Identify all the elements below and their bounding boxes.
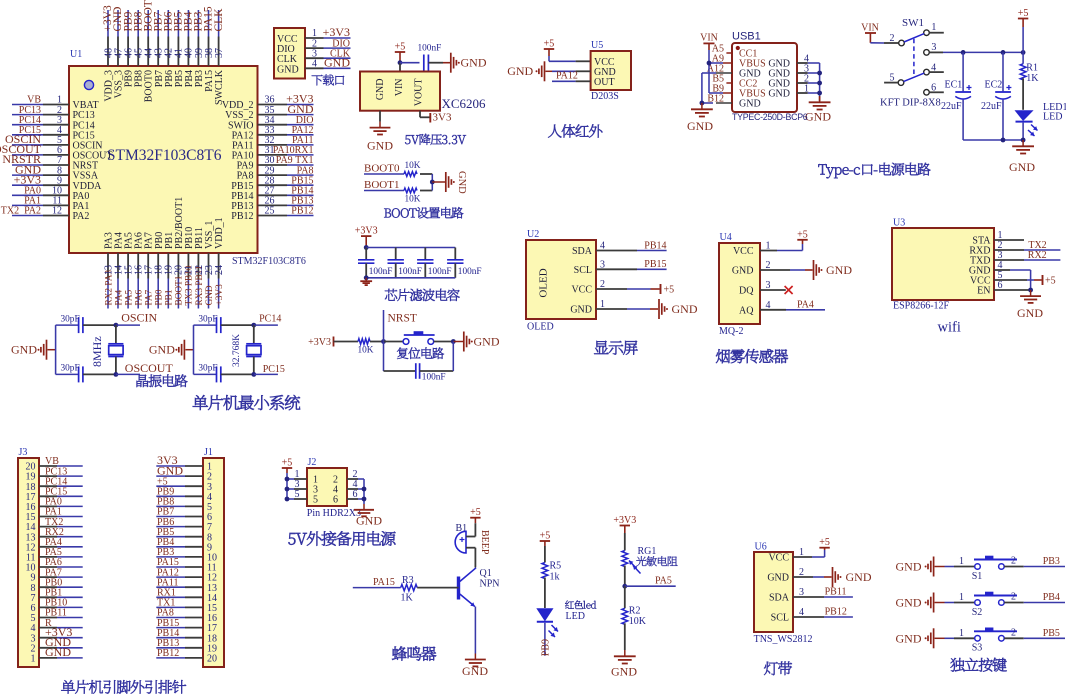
svg-text:S2: S2 <box>972 607 983 618</box>
svg-text:LED: LED <box>566 611 585 622</box>
wire node to PA5 <box>625 585 676 587</box>
pin name CLK <box>277 54 298 65</box>
node net label DIO <box>296 115 314 126</box>
node net label PB11 <box>825 586 847 597</box>
wire USB1 right pin 4 <box>797 62 820 64</box>
caption 5V waijie beiyong dianyuan <box>288 531 395 546</box>
pin number 10 <box>26 563 36 574</box>
svg-text:GND: GND <box>462 664 488 678</box>
pin number 4 <box>31 623 36 634</box>
wire pin3 to power rail <box>929 51 1023 53</box>
svg-text:100nF: 100nF <box>418 44 442 54</box>
pin name VDD_3 <box>104 70 115 102</box>
wire U1 pin 8 (VSSA) left <box>12 174 69 176</box>
node net label PA4 <box>114 289 124 305</box>
wire emitter to gnd <box>474 607 476 654</box>
wire J1 pin 14 <box>156 596 203 598</box>
pin number 12 <box>207 573 217 584</box>
pin number 48 <box>103 48 114 58</box>
pin number 29 <box>265 165 275 176</box>
pin number 2 <box>766 260 771 271</box>
pin number 44 <box>144 48 155 58</box>
pin number 40 <box>184 48 195 58</box>
svg-text:TYPEC-250D-BCP6: TYPEC-250D-BCP6 <box>732 112 808 122</box>
photoresistor RG1 <box>622 546 657 574</box>
pin number 1 <box>31 654 36 665</box>
svg-text:22uF: 22uF <box>981 101 1002 112</box>
pin name 3 <box>313 485 318 496</box>
svg-text:NRST: NRST <box>388 313 417 325</box>
svg-text:GND: GND <box>672 302 698 316</box>
wire gnd to left vert <box>185 349 193 351</box>
pin number 16 <box>134 265 145 275</box>
pin name NRST <box>73 161 99 172</box>
pushbutton S1 <box>972 556 1017 582</box>
pin number 3 <box>207 482 212 493</box>
junction <box>114 372 119 377</box>
pin number 17 <box>26 492 36 503</box>
pin number 7 <box>31 593 36 604</box>
svg-text:30pF: 30pF <box>61 364 80 374</box>
svg-text:STM32F103C8T6: STM32F103C8T6 <box>232 256 306 267</box>
wire download port pin 2 <box>305 47 351 49</box>
wire +5 to R5 <box>544 546 546 563</box>
pin name PC13 <box>73 110 95 121</box>
pin number 5 <box>31 613 36 624</box>
pin name GND <box>768 59 790 70</box>
caption guangmin dianzu <box>636 556 677 566</box>
wire U1 pin 36 (VDD_2) right <box>258 104 314 106</box>
svg-text:+3V3: +3V3 <box>613 515 636 526</box>
junction <box>961 50 966 55</box>
wire top mid <box>221 324 254 326</box>
svg-text:J3: J3 <box>19 447 28 458</box>
ground (typec power) <box>1009 140 1035 174</box>
pin name SWIO <box>228 120 254 131</box>
svg-text:R3: R3 <box>402 575 414 586</box>
svg-text:EN: EN <box>977 286 990 297</box>
svg-text:GND: GND <box>896 631 922 645</box>
svg-text:4: 4 <box>312 59 317 70</box>
svg-text:GND: GND <box>826 263 852 277</box>
power +5 port (OLED) <box>661 284 675 295</box>
node net label PB14 <box>291 186 313 197</box>
node net label PB8 <box>157 497 174 508</box>
pin number 30 <box>265 155 275 166</box>
pin number 18 <box>207 633 217 644</box>
svg-text:100nF: 100nF <box>458 267 482 277</box>
svg-text:D203S: D203S <box>591 91 619 102</box>
wire USB1 pin A12 <box>716 72 732 74</box>
wire node to R2 <box>624 586 626 608</box>
pin name TXD <box>970 256 991 267</box>
pin name 6 <box>333 495 338 506</box>
svg-text:+5: +5 <box>540 531 551 542</box>
wire xtal top <box>115 325 117 344</box>
wire EC2 bottom <box>1002 100 1004 140</box>
power +3V3 port (reset) <box>308 337 333 348</box>
wire VCC to +5 <box>994 279 1042 281</box>
pin name RXD <box>969 246 990 257</box>
pin number 18 <box>26 482 36 493</box>
wire filter bottom rail <box>366 277 455 279</box>
pin number 3 <box>766 280 771 291</box>
pin number 6 outside <box>353 489 358 500</box>
junction <box>398 60 403 65</box>
pin name PB3 <box>194 70 205 87</box>
pin number 3 outside <box>295 479 300 490</box>
wire J3 pin 11 <box>39 556 83 558</box>
svg-text:25: 25 <box>265 206 275 217</box>
node net label TX3 PB10 <box>185 265 195 305</box>
pin name PB6 <box>164 70 175 87</box>
svg-text:GND: GND <box>324 56 350 70</box>
svg-text:Q1: Q1 <box>480 568 492 579</box>
pin name VBAT <box>73 100 99 111</box>
wire J1 pin 1 <box>156 465 203 467</box>
pin number 1 <box>600 299 605 310</box>
node net label TX1 <box>157 598 175 609</box>
no-connect X on DQ <box>785 286 793 294</box>
pin number 10 <box>207 553 217 564</box>
node net label PA8 <box>297 165 314 176</box>
pin name GND <box>277 64 299 75</box>
junction <box>364 245 369 250</box>
svg-text:12: 12 <box>52 206 62 217</box>
switch SW1 pin 1 terminal <box>924 22 937 36</box>
node net label PB12 <box>157 648 179 659</box>
node net label BOOT0 <box>142 0 154 32</box>
pin number 13 <box>103 265 114 275</box>
ground (BOOT) <box>446 171 467 194</box>
pin number 1 <box>959 592 964 603</box>
svg-text:S1: S1 <box>972 571 983 582</box>
caption xiazaikou <box>312 75 344 86</box>
pin number 1 <box>207 462 212 473</box>
junction <box>1001 138 1006 143</box>
wire J1 pin 20 <box>156 657 203 659</box>
wire top mid <box>83 324 116 326</box>
caption wifi <box>938 320 961 336</box>
svg-text:PC14: PC14 <box>259 313 281 324</box>
pin name SDA <box>572 246 593 257</box>
capacitor 30pF (top) <box>198 314 220 333</box>
wire EC1 bottom <box>962 100 964 140</box>
node net label PA0 <box>24 186 41 197</box>
svg-text:LED: LED <box>1043 112 1062 123</box>
pin name PB11 <box>194 227 205 249</box>
pin number 5 <box>998 270 1003 281</box>
pin number 1 <box>766 241 771 252</box>
pin number 20 <box>174 265 185 275</box>
svg-text:GND: GND <box>1017 306 1043 320</box>
wire USB1 pin B9 <box>723 92 732 94</box>
pin name 2 <box>333 475 338 486</box>
node net label VB <box>45 456 59 467</box>
pin name VCC <box>733 246 754 257</box>
svg-text:ESP8266-12F: ESP8266-12F <box>893 301 950 312</box>
svg-text:SCL: SCL <box>574 265 592 276</box>
caption fuwei dianlu <box>397 347 444 359</box>
svg-text:1: 1 <box>959 556 964 567</box>
ground (filter) <box>360 278 372 285</box>
pushbutton (reset) <box>403 331 435 344</box>
pin number 46 <box>123 48 134 58</box>
caption xinpian lvbo dianrong <box>385 289 460 301</box>
svg-text:PA4: PA4 <box>797 299 814 310</box>
node net label PA1 <box>24 196 41 207</box>
wire U1 pin 32 (PA11) right <box>258 144 314 146</box>
svg-text:R2: R2 <box>629 606 641 617</box>
node net label PB14 <box>644 240 666 251</box>
node net label PA15 <box>203 6 215 31</box>
pin number 23 <box>204 265 215 275</box>
capacitor EC2 22uF <box>981 79 1011 112</box>
wire U1 pin 25 (PB12) right <box>258 215 314 217</box>
pin name PB2/BOOT1 <box>174 197 185 249</box>
svg-text:U6: U6 <box>755 542 767 553</box>
node net label RX2 <box>1028 250 1047 261</box>
wire S2 to PB4 <box>1004 602 1065 604</box>
node net label PB8 <box>132 11 144 31</box>
connector J2 body <box>307 457 361 519</box>
crystal 32.768K <box>232 334 261 367</box>
pin name VCC <box>277 34 298 45</box>
ground (crystal) <box>149 340 185 360</box>
wire U1 pin 44 (BOOT0) top <box>147 10 149 66</box>
node net label RX1 <box>157 588 176 599</box>
wire top right <box>254 324 278 326</box>
svg-text:NPN: NPN <box>480 579 500 590</box>
pin name VCC <box>970 276 991 287</box>
power +3V3 (filter) <box>355 226 378 248</box>
junction <box>362 497 367 502</box>
svg-text:GND: GND <box>1009 160 1035 174</box>
pin number 11 <box>207 563 217 574</box>
resistor R3 1K <box>401 575 418 604</box>
wire USB1 pin A5 <box>726 52 732 54</box>
junction <box>817 91 822 96</box>
capacitor 100nF (regulator input) <box>418 44 442 71</box>
pin number 14 <box>207 593 217 604</box>
pin name DQ <box>739 286 754 297</box>
svg-text:GND: GND <box>288 102 314 116</box>
wire SCL to PB15 <box>596 268 667 270</box>
node net label NRSTR <box>2 152 41 166</box>
svg-text:1: 1 <box>931 22 936 33</box>
pin number 47 <box>113 48 124 58</box>
junction <box>451 339 456 344</box>
wire +5 to VCC <box>549 56 591 61</box>
node net label VB <box>27 95 41 106</box>
pin number 3 <box>31 633 36 644</box>
svg-text:SW1: SW1 <box>902 17 924 29</box>
pin number 3 <box>799 587 804 598</box>
power +5 (red led) <box>540 531 551 547</box>
node net label PB4 <box>183 11 195 31</box>
wire cap3 top stub <box>424 248 426 260</box>
wire +5 node to C <box>400 62 420 64</box>
wire node2 to gnd <box>453 341 463 343</box>
wire U1 pin 6 (OSCOUT) left <box>12 154 69 156</box>
svg-text:GND: GND <box>768 89 790 100</box>
pin name GND <box>570 305 592 316</box>
svg-text:1: 1 <box>959 628 964 639</box>
svg-text:30pF: 30pF <box>198 314 217 324</box>
wire J3 pin 13 <box>39 536 83 538</box>
wire J3 pin 15 <box>39 516 83 518</box>
svg-text:6: 6 <box>353 489 358 500</box>
junction <box>1028 288 1033 293</box>
wire U1 pin 17 (PA7) bottom <box>147 253 149 309</box>
svg-text:OSCIN: OSCIN <box>121 310 157 324</box>
pin name DIO <box>277 44 295 55</box>
svg-text:GND: GND <box>611 665 637 679</box>
node net label PC13 <box>19 105 41 116</box>
ground (USB left) <box>687 103 713 133</box>
node net label B5 <box>712 74 724 85</box>
pin name VDD_2 <box>222 100 254 111</box>
pin number 14 <box>26 522 36 533</box>
pin number 1 <box>799 547 804 558</box>
pin number 2 <box>31 643 36 654</box>
wire J3 pin 10 <box>39 566 83 568</box>
wire R2 to gnd <box>624 623 626 650</box>
pin name PB7 <box>154 70 165 87</box>
power +5 (J2) <box>282 458 293 474</box>
capacitor 100nF (filter 2) <box>388 260 422 277</box>
svg-text:2: 2 <box>1011 592 1016 603</box>
node net label PB4 <box>1043 592 1060 603</box>
svg-text:PA4: PA4 <box>114 289 124 305</box>
pin name PA2 <box>73 211 90 222</box>
pin number 10 <box>52 186 62 197</box>
wire J2 pin 2 <box>347 478 364 480</box>
caption hongse led <box>565 600 596 609</box>
wire cap1 top stub <box>365 248 367 260</box>
pin name 4 <box>333 485 338 496</box>
svg-text:1: 1 <box>959 592 964 603</box>
junction <box>707 61 712 66</box>
wire cap branch right <box>420 342 454 372</box>
pin number 16 <box>26 502 36 513</box>
svg-text:U3: U3 <box>893 218 905 229</box>
wire VOUT to 3V3 <box>420 111 430 118</box>
wire C to GND <box>428 62 450 64</box>
wire node to button <box>384 341 404 343</box>
pin number 12 <box>26 542 36 553</box>
capacitor 100nF (filter 3) <box>417 260 451 277</box>
node net label GND <box>157 463 183 477</box>
wire J1 pin 5 <box>156 505 203 507</box>
wire VIN to pin2 <box>870 42 898 44</box>
wire J3 pin 1 <box>39 657 83 659</box>
wire USB1 right pin 1 <box>797 92 820 94</box>
svg-text:PA5: PA5 <box>655 575 672 586</box>
svg-text:SDA: SDA <box>572 246 593 257</box>
svg-text:VCC: VCC <box>768 553 789 564</box>
pin number 17 <box>207 623 217 634</box>
pin number 4 <box>766 300 771 311</box>
node net label GND <box>45 635 71 649</box>
wire cap1 bottom stub <box>365 263 367 278</box>
node net label PA7 <box>145 289 155 305</box>
pin name SWCLK <box>214 69 225 105</box>
wire TXD to RX2 <box>994 259 1060 261</box>
wire U1 pin 22 (PB11) bottom <box>197 253 199 309</box>
pin number 8 <box>207 532 212 543</box>
node net label PC15 <box>263 364 285 375</box>
svg-text:3V3: 3V3 <box>433 112 452 124</box>
pin name PA3 <box>104 232 115 249</box>
svg-text:VIN: VIN <box>700 32 718 43</box>
switch SW1 pin 3 terminal <box>924 42 937 55</box>
junction <box>700 101 705 106</box>
wire BOOT1 <box>364 190 404 192</box>
wire S1 to PB3 <box>1004 566 1065 568</box>
pin number 9 <box>57 175 62 186</box>
pin number 3 <box>804 64 809 75</box>
pin number 9 <box>207 542 212 553</box>
svg-text:+5: +5 <box>819 537 830 548</box>
svg-text:USB1: USB1 <box>732 31 761 43</box>
wire buzzer to collector <box>474 548 476 568</box>
node net label GND <box>324 56 350 70</box>
wire U1 pin 9 (VDDA) left <box>12 184 69 186</box>
pin number 3 <box>600 259 605 270</box>
power VIN port <box>700 32 718 50</box>
wire J3 pin 16 <box>39 505 83 507</box>
pin number 31 <box>265 145 275 156</box>
wire R3 to base <box>417 587 458 589</box>
wire button to node2 <box>434 341 454 343</box>
capacitor 100nF (filter 1) <box>358 260 392 277</box>
pin name PB8 <box>134 70 145 87</box>
svg-text:37: 37 <box>214 48 225 58</box>
wire U1 pin 41 (PB5) top <box>177 10 179 66</box>
svg-text:GND: GND <box>456 171 467 194</box>
svg-text:PB15: PB15 <box>644 259 666 270</box>
switch SW1 arm pole B <box>904 73 925 82</box>
svg-text:VIN: VIN <box>861 23 879 34</box>
ground (regulator) <box>367 122 393 153</box>
ground (S1) <box>896 557 934 577</box>
pin name PB14 <box>231 191 253 202</box>
pin number 12 <box>52 206 62 217</box>
svg-text:RG1: RG1 <box>638 546 657 557</box>
wire gnd to S1 <box>935 566 975 568</box>
svg-text:GND: GND <box>11 343 37 357</box>
caption danpianji zuixiao xitong <box>193 395 300 410</box>
caption Type-c kou dianyuan dianlu <box>818 163 930 179</box>
wire U1 pin 3 (PC14) left <box>12 124 69 126</box>
svg-text:GND: GND <box>732 266 754 277</box>
wire +5 node to VIN <box>399 63 401 72</box>
capacitor 100nF (reset) <box>416 363 446 382</box>
node net label GND <box>112 7 124 32</box>
junction <box>364 275 369 280</box>
svg-text:GND: GND <box>805 110 831 124</box>
pin name VBUS <box>739 89 766 100</box>
node net label B12 <box>707 94 724 105</box>
pin name GND <box>768 89 790 100</box>
wire U1 pin 13 (PA3) bottom <box>107 253 109 309</box>
node net label PA11 <box>292 135 314 146</box>
pin name GND <box>767 573 789 584</box>
wire J1 pin 12 <box>156 576 203 578</box>
pin number 1 <box>312 28 317 39</box>
node net label A9 <box>712 54 724 65</box>
